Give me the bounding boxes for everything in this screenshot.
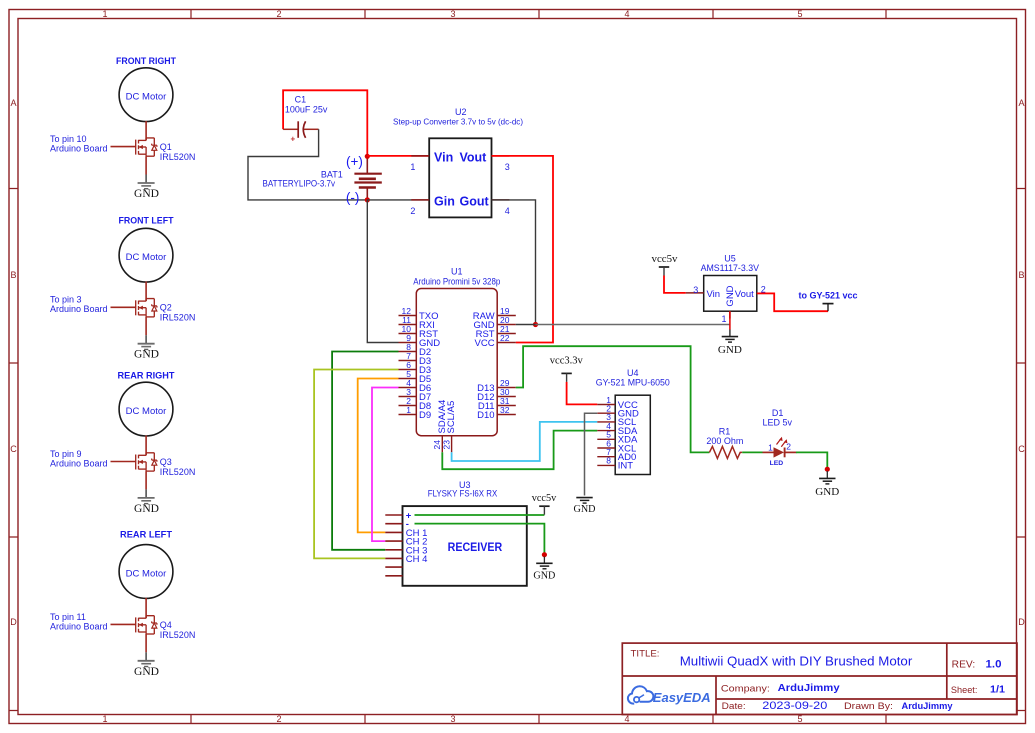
svg-text:Arduino Promini 5v 328p: Arduino Promini 5v 328p: [413, 277, 500, 287]
svg-text:GND: GND: [718, 345, 742, 356]
ground GND (Q4): [138, 661, 155, 667]
frame column numbers top: [102, 9, 802, 19]
battery BAT1: [263, 154, 382, 205]
svg-text:INT: INT: [618, 461, 634, 472]
frame left ruler ticks: [9, 189, 18, 711]
node junction at receiver GND: [542, 552, 547, 557]
pin names U1 left: [419, 311, 440, 421]
transistor Q2: [136, 299, 157, 317]
svg-text:C: C: [1018, 444, 1025, 454]
wire motor to Q2 drain: [145, 282, 147, 302]
motor block FRONT LEFT: [50, 216, 195, 361]
transistor Q4: [136, 616, 157, 634]
svg-text:+: +: [290, 134, 295, 143]
svg-text:(+): (+): [346, 154, 363, 169]
svg-text:32: 32: [500, 405, 510, 415]
svg-text:GND: GND: [134, 349, 159, 361]
svg-text:2: 2: [276, 714, 281, 724]
svg-text:1/1: 1/1: [990, 684, 1005, 696]
svg-text:23: 23: [442, 440, 452, 450]
title block frame: [622, 643, 1017, 714]
svg-text:DC Motor: DC Motor: [126, 406, 167, 417]
transistor Q1: [136, 138, 157, 156]
wire red vcc3.3v to U4 VCC: [567, 382, 598, 405]
svg-text:100uF 25v: 100uF 25v: [285, 105, 328, 115]
wire black U2 Gout down to GND net: [492, 200, 536, 325]
node junction at D1 GND: [825, 467, 830, 472]
pin numbers U4: [606, 395, 611, 466]
svg-text:2: 2: [276, 9, 281, 19]
pin stubs U3: [385, 515, 402, 576]
svg-text:B: B: [1018, 270, 1024, 280]
ground GND (receiver): [543, 557, 545, 564]
power flag to GY-521 vcc: [798, 291, 857, 312]
wire gate lead Q3: [111, 461, 136, 463]
svg-text:IRL520N: IRL520N: [160, 152, 196, 162]
IC U4 GY-521 MPU-6050: [596, 368, 670, 474]
wire dark green D2 to CH3: [332, 352, 398, 550]
wire motor to Q1 drain: [145, 121, 147, 140]
transistor Q3: [136, 453, 157, 471]
wire Q4 source to GND: [145, 634, 147, 652]
node junction GND net at pin 20: [533, 322, 538, 327]
pin numbers U1 left: [402, 306, 412, 415]
frame right ruler ticks: [1017, 189, 1026, 711]
IC U1 Arduino Promini: [399, 267, 516, 453]
wire cyan SCL/A5 to U4 SCL: [452, 422, 598, 461]
wire green R1 to D1: [742, 451, 762, 453]
svg-text:4: 4: [624, 714, 629, 724]
svg-text:REV:: REV:: [952, 660, 976, 671]
svg-text:2: 2: [786, 442, 791, 452]
ground GND (U4): [576, 498, 592, 504]
EasyEDA logo: [628, 686, 711, 705]
svg-text:22: 22: [500, 333, 510, 343]
svg-text:BATTERYLIPO-3.7v: BATTERYLIPO-3.7v: [263, 178, 336, 188]
pin stubs U1 left: [399, 316, 417, 415]
svg-text:GND: GND: [815, 486, 839, 498]
svg-text:D: D: [10, 617, 17, 627]
svg-text:Arduino Board: Arduino Board: [50, 304, 108, 314]
svg-text:ArduJimmy: ArduJimmy: [778, 683, 840, 694]
svg-text:C: C: [10, 444, 17, 454]
svg-text:Drawn By:: Drawn By:: [844, 701, 893, 712]
svg-text:GND: GND: [533, 571, 555, 582]
wire black (-) to U2 Gin: [367, 199, 429, 201]
svg-text:SCL/A5: SCL/A5: [446, 401, 457, 434]
svg-text:Arduino Board: Arduino Board: [50, 621, 108, 631]
svg-text:1: 1: [721, 314, 726, 324]
IC U5 AMS1117-3.3V: [686, 254, 775, 325]
svg-text:To pin 10: To pin 10: [50, 134, 87, 144]
wire red vcc5v to U5 Vin: [664, 276, 686, 293]
svg-text:IRL520N: IRL520N: [160, 467, 196, 477]
svg-text:Vout: Vout: [735, 289, 754, 300]
LED D1: [762, 408, 796, 467]
svg-text:ArduJimmy: ArduJimmy: [902, 701, 953, 711]
wire red C1 top loop to (+) node: [283, 90, 367, 156]
wire green D13 to R1: [516, 346, 710, 452]
svg-text:5: 5: [797, 9, 802, 19]
svg-text:D9: D9: [419, 410, 431, 421]
svg-text:4: 4: [505, 206, 510, 216]
pin names U1 right: [473, 311, 495, 421]
wire orange D5 to CH1: [358, 379, 399, 533]
svg-text:GND: GND: [134, 503, 159, 515]
svg-text:Q1: Q1: [160, 142, 172, 152]
IC U2 step-up converter: [393, 107, 523, 217]
frame top ruler ticks: [191, 10, 886, 19]
svg-text:4: 4: [624, 9, 629, 19]
svg-text:A: A: [10, 98, 16, 108]
svg-text:EasyEDA: EasyEDA: [653, 690, 711, 705]
motor block FRONT RIGHT: [50, 56, 195, 200]
power flag vcc5v (U5): [652, 253, 678, 276]
svg-text:VCC: VCC: [475, 338, 495, 349]
svg-text:Sheet:: Sheet:: [951, 685, 978, 696]
motor M4 (DC Motor): [119, 545, 173, 599]
svg-text:2: 2: [410, 206, 415, 216]
svg-text:3: 3: [450, 9, 455, 19]
wire yellow-green D3 to CH4: [314, 370, 398, 559]
wire Q3 source to GND: [145, 471, 147, 489]
svg-text:Vin: Vin: [707, 289, 721, 300]
svg-text:Q4: Q4: [160, 620, 172, 630]
svg-text:Gout: Gout: [460, 195, 490, 209]
frame row letters left: [10, 98, 17, 627]
wire green receiver + to vcc5v: [415, 514, 545, 516]
svg-text:1: 1: [768, 442, 773, 452]
wire gray U4 GND pin to ground: [585, 413, 598, 495]
svg-text:B: B: [10, 270, 16, 280]
wire red U2 Vout to U1 VCC: [492, 156, 554, 343]
LED arrows: [777, 439, 786, 447]
svg-text:vcc5v: vcc5v: [652, 253, 678, 265]
wire gate lead Q4: [111, 623, 136, 625]
resistor R1: [706, 427, 743, 459]
svg-text:200 Ohm: 200 Ohm: [706, 436, 743, 446]
svg-text:Vin: Vin: [434, 151, 453, 165]
wire green receiver - to GND: [415, 524, 545, 554]
node (+) junction: [365, 154, 370, 159]
svg-text:Q2: Q2: [160, 303, 172, 313]
wire red U5 GND pin down: [729, 311, 731, 329]
pin stubs U2: [411, 156, 429, 200]
svg-text:2023-09-20: 2023-09-20: [762, 700, 827, 712]
svg-text:U5: U5: [724, 254, 736, 264]
ground GND (U5): [722, 337, 738, 343]
motor block REAR LEFT: [50, 530, 195, 678]
svg-text:TITLE:: TITLE:: [631, 648, 660, 658]
svg-text:3: 3: [693, 285, 698, 295]
wire gate lead Q2: [111, 306, 136, 308]
motor M2 (DC Motor): [119, 228, 173, 282]
svg-text:(-): (-): [346, 190, 360, 205]
pin names U4: [618, 400, 639, 472]
svg-text:Arduino Board: Arduino Board: [50, 144, 108, 154]
motor block REAR RIGHT: [50, 371, 195, 515]
svg-text:Arduino Board: Arduino Board: [50, 458, 108, 468]
wire motor to Q3 drain: [145, 435, 147, 455]
svg-text:GND: GND: [725, 285, 736, 306]
svg-text:FRONT RIGHT: FRONT RIGHT: [116, 56, 176, 67]
svg-text:3: 3: [505, 162, 510, 172]
wire red U5 Vout to GY-521 vcc flag: [757, 293, 828, 311]
svg-text:To pin 11: To pin 11: [50, 612, 86, 622]
svg-text:U2: U2: [455, 107, 467, 117]
svg-text:3: 3: [450, 714, 455, 724]
pin names U3: [406, 511, 428, 566]
svg-text:LED: LED: [770, 460, 784, 467]
svg-text:GY-521 MPU-6050: GY-521 MPU-6050: [596, 377, 670, 387]
ground GND (D1): [826, 471, 828, 478]
wire green D1 to GND: [796, 452, 827, 468]
svg-text:LED 5v: LED 5v: [762, 417, 792, 427]
svg-text:GND: GND: [134, 188, 159, 200]
wire motor to Q4 drain: [145, 598, 147, 618]
svg-text:Date:: Date:: [722, 701, 746, 712]
wire red (+) to U2 Vin: [367, 155, 429, 157]
svg-text:1: 1: [102, 9, 107, 19]
svg-text:1: 1: [410, 162, 415, 172]
svg-text:GND: GND: [134, 666, 159, 678]
motor M1 (DC Motor): [119, 68, 173, 122]
IC U3 receiver: [385, 480, 527, 586]
wire Q1 source to GND: [145, 156, 147, 174]
ground GND (Q1): [138, 183, 155, 189]
svg-text:vcc3.3v: vcc3.3v: [550, 355, 583, 367]
frame bottom ruler ticks: [191, 715, 886, 724]
wire black (-) down to U1 GND pin 9: [367, 200, 398, 343]
frame row letters right: [1018, 98, 1025, 627]
svg-text:RECEIVER: RECEIVER: [448, 540, 503, 554]
pin numbers U1 right: [500, 306, 510, 415]
pin stubs U1 right: [497, 316, 516, 415]
wire magenta D6 to CH2: [372, 388, 399, 542]
svg-text:D10: D10: [477, 410, 494, 421]
svg-text:5: 5: [797, 714, 802, 724]
svg-text:Q3: Q3: [160, 457, 172, 467]
svg-text:AMS1117-3.3V: AMS1117-3.3V: [701, 263, 759, 273]
svg-text:IRL520N: IRL520N: [160, 630, 196, 640]
svg-text:REAR LEFT: REAR LEFT: [120, 530, 172, 541]
svg-text:To pin 3: To pin 3: [50, 295, 82, 305]
svg-text:A: A: [1018, 98, 1024, 108]
power flag vcc3.3v: [550, 355, 583, 382]
frame column numbers bottom: [102, 714, 802, 724]
svg-text:FRONT LEFT: FRONT LEFT: [119, 216, 174, 227]
node (-) junction: [365, 197, 370, 202]
wire green SDA/A4 to U4 SDA: [442, 431, 597, 470]
svg-text:FLYSKY FS-I6X RX: FLYSKY FS-I6X RX: [428, 488, 498, 498]
pin stubs U4: [597, 405, 615, 466]
svg-text:D: D: [1018, 617, 1025, 627]
wire black C1 to battery minus: [248, 129, 367, 200]
svg-text:to GY-521 vcc: to GY-521 vcc: [798, 291, 857, 301]
svg-text:Vout: Vout: [460, 151, 488, 165]
wire Q2 source to GND: [145, 317, 147, 335]
capacitor C1: [283, 94, 328, 143]
svg-text:DC Motor: DC Motor: [126, 568, 167, 579]
svg-text:1.0: 1.0: [986, 658, 1002, 670]
svg-text:Multiwii QuadX with DIY Brushe: Multiwii QuadX with DIY Brushed Motor: [680, 654, 913, 669]
svg-text:IRL520N: IRL520N: [160, 313, 196, 323]
svg-text:DC Motor: DC Motor: [126, 92, 167, 103]
svg-text:REAR RIGHT: REAR RIGHT: [118, 371, 175, 382]
svg-text:Gin: Gin: [434, 195, 455, 209]
wire gate lead Q1: [111, 146, 136, 148]
ground GND (Q3): [138, 498, 155, 504]
svg-text:C1: C1: [295, 94, 307, 104]
svg-text:Company:: Company:: [721, 683, 770, 694]
svg-text:1: 1: [102, 714, 107, 724]
svg-text:Step-up Converter 3.7v to 5v (: Step-up Converter 3.7v to 5v (dc-dc): [393, 117, 523, 127]
svg-text:8: 8: [606, 456, 611, 466]
pin stubs U1 bottom: [442, 436, 451, 453]
svg-text:To pin 9: To pin 9: [50, 449, 82, 459]
svg-text:GND: GND: [574, 504, 596, 515]
svg-text:U1: U1: [451, 267, 463, 277]
power flag vcc5v (receiver): [532, 492, 557, 515]
motor M3 (DC Motor): [119, 382, 173, 436]
svg-text:1: 1: [406, 405, 411, 415]
svg-text:DC Motor: DC Motor: [126, 252, 167, 263]
ground GND (Q2): [138, 344, 155, 350]
svg-text:CH 4: CH 4: [406, 554, 428, 565]
svg-text:vcc5v: vcc5v: [532, 492, 557, 504]
wire gray GND net pin20 to U5 GND: [516, 324, 536, 326]
